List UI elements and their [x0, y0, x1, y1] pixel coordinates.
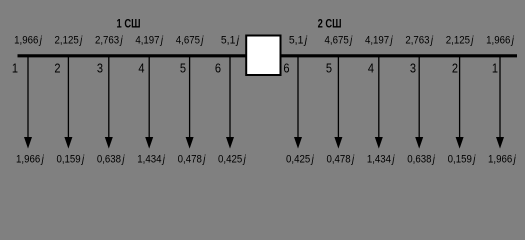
left feeder 3 wire stem — [108, 56, 110, 141]
left feeder 4 wire stem — [148, 56, 150, 141]
svg-text:3: 3 — [97, 61, 103, 76]
left feeder 1 wire stem — [27, 56, 29, 141]
svg-text:2: 2 — [452, 61, 458, 76]
svg-text:0,159j: 0,159j — [56, 154, 84, 166]
left feeder 6 wire stem — [229, 56, 231, 141]
svg-text:1,966j: 1,966j — [488, 154, 516, 166]
svg-text:0,159j: 0,159j — [448, 154, 476, 166]
svg-text:2,763j: 2,763j — [95, 35, 123, 47]
svg-text:4: 4 — [138, 61, 144, 76]
bus coupler box — [246, 36, 280, 76]
svg-text:2,763j: 2,763j — [405, 35, 433, 47]
left feeder 5 arrowhead — [186, 137, 194, 149]
right feeder 1 wire stem — [499, 56, 501, 141]
svg-text:0,638j: 0,638j — [407, 154, 435, 166]
right feeder 4 arrowhead — [375, 137, 383, 149]
svg-text:1,434j: 1,434j — [137, 154, 165, 166]
right feeder 2 wire stem — [459, 56, 461, 141]
left feeder 4 arrowhead — [145, 137, 153, 149]
svg-text:4: 4 — [368, 61, 374, 76]
svg-text:1,434j: 1,434j — [367, 154, 395, 166]
right feeder 5 arrowhead — [334, 137, 342, 149]
right feeder 6 arrowhead — [294, 137, 302, 149]
svg-text:0,425j: 0,425j — [286, 154, 314, 166]
left feeder 1 arrowhead — [24, 137, 32, 149]
left feeder 2 wire stem — [67, 56, 69, 141]
svg-text:2 СШ: 2 СШ — [318, 18, 342, 31]
svg-text:5,1j: 5,1j — [289, 34, 308, 46]
right feeder 2 arrowhead — [456, 137, 464, 149]
right feeder 4 wire stem — [378, 56, 380, 141]
right feeder 3 arrowhead — [415, 137, 423, 149]
left feeder 5 wire stem — [189, 56, 191, 141]
svg-text:1: 1 — [492, 61, 498, 76]
svg-text:5: 5 — [180, 61, 186, 76]
svg-text:5: 5 — [326, 61, 332, 76]
svg-text:2: 2 — [54, 61, 60, 76]
svg-text:4,675j: 4,675j — [325, 35, 353, 47]
svg-text:2,125j: 2,125j — [446, 35, 474, 47]
svg-text:2,125j: 2,125j — [55, 35, 83, 47]
left feeder 6 arrowhead — [226, 137, 234, 149]
svg-text:0,478j: 0,478j — [178, 154, 206, 166]
svg-text:1,966j: 1,966j — [16, 154, 44, 166]
svg-text:1,966j: 1,966j — [486, 35, 514, 47]
left feeder 3 arrowhead — [105, 137, 113, 149]
right feeder 1 arrowhead — [496, 137, 504, 149]
right feeder 5 wire stem — [337, 56, 339, 141]
svg-text:6: 6 — [283, 61, 289, 76]
svg-text:3: 3 — [410, 61, 416, 76]
busbar beam line — [18, 54, 518, 57]
svg-text:4,197j: 4,197j — [365, 35, 393, 47]
svg-text:6: 6 — [215, 61, 221, 76]
svg-text:1 СШ: 1 СШ — [117, 18, 141, 31]
svg-text:4,197j: 4,197j — [135, 35, 163, 47]
svg-text:1,966j: 1,966j — [14, 35, 42, 47]
svg-text:0,638j: 0,638j — [97, 154, 125, 166]
right feeder 6 wire stem — [297, 56, 299, 141]
svg-text:0,478j: 0,478j — [326, 154, 354, 166]
svg-text:5,1j: 5,1j — [221, 34, 240, 46]
svg-text:4,675j: 4,675j — [176, 35, 204, 47]
svg-text:0,425j: 0,425j — [218, 154, 246, 166]
svg-text:1: 1 — [12, 61, 18, 76]
right feeder 3 wire stem — [418, 56, 420, 141]
left feeder 2 arrowhead — [64, 137, 72, 149]
